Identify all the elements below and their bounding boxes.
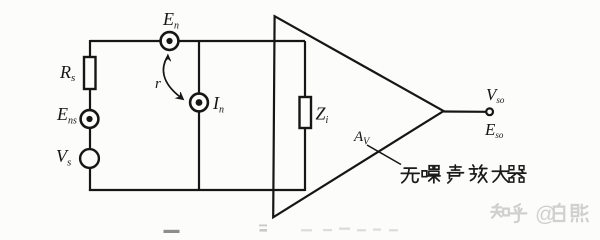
char 知 bbox=[491, 204, 509, 218]
noise source En (circle with dot) bbox=[161, 32, 179, 50]
wire: top rail right segment (En to Zi branch) bbox=[179, 40, 306, 42]
watermark 知乎 @白熊 bbox=[491, 204, 526, 222]
char 放 bbox=[469, 165, 487, 183]
output terminal (open circle) bbox=[486, 108, 493, 115]
wire: Zi branch upper bbox=[304, 41, 306, 98]
wire: top rail left segment (node A to En) bbox=[90, 40, 161, 42]
source Vs (open circle) bbox=[80, 149, 99, 168]
wire: Rs to Ens bbox=[89, 89, 91, 110]
svg-text:r: r bbox=[155, 76, 161, 92]
wire: Vs to bottom rail bbox=[89, 168, 91, 191]
op-amp triangle (noiseless amplifier) bbox=[273, 16, 443, 217]
wire: Zi branch lower bbox=[304, 128, 306, 191]
leader line from triangle to amplifier label bbox=[367, 145, 401, 165]
char 声 bbox=[447, 165, 463, 183]
char 器 bbox=[508, 166, 526, 182]
cropped figure caption fragments at bottom edge bbox=[164, 230, 180, 233]
wire: Ens to Vs bbox=[89, 128, 91, 149]
char 白 bbox=[554, 204, 564, 221]
resistor Rs bbox=[84, 57, 96, 89]
text 无噪声放大器 (noiseless amplifier, drawn strokes) bbox=[401, 165, 526, 183]
wire: left branch top (rail to Rs) bbox=[89, 40, 91, 58]
wire: In branch lower bbox=[198, 112, 200, 190]
wire: In branch upper bbox=[198, 41, 200, 93]
wire: output from apex bbox=[444, 110, 486, 113]
char 乎 bbox=[510, 204, 526, 222]
char 熊 bbox=[572, 205, 588, 222]
wire: bottom rail bbox=[89, 189, 305, 191]
noise source In (circle with dot) bbox=[190, 94, 208, 112]
char 无 bbox=[401, 168, 419, 183]
correlation arrow r (curved, double arrowhead) bbox=[163, 54, 183, 100]
char 大 bbox=[492, 166, 508, 182]
noise source Ens (circle with dot) bbox=[81, 110, 99, 128]
char 噪 bbox=[422, 166, 440, 183]
impedance Zi bbox=[300, 97, 312, 128]
